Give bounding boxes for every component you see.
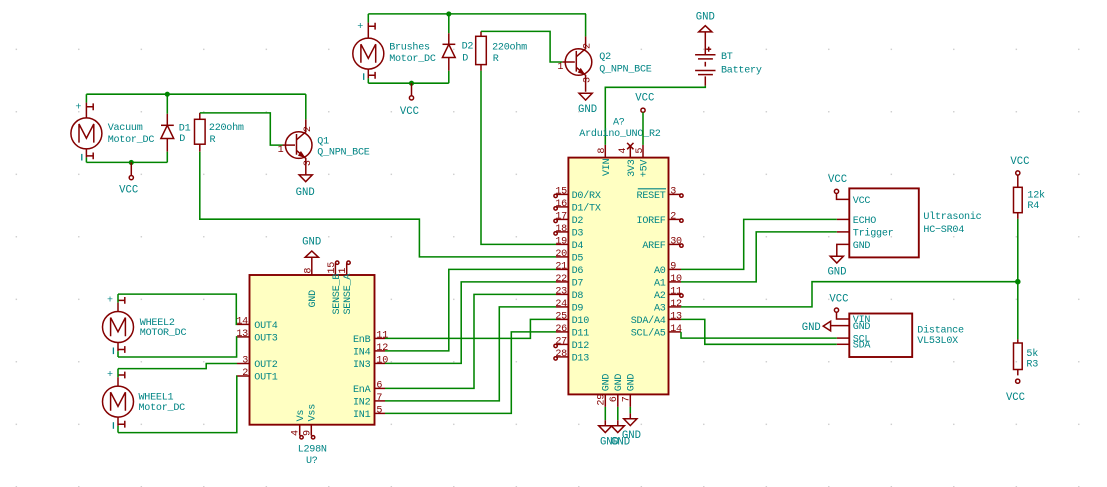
wire IN1 to D11	[385, 332, 556, 414]
svg-text:10: 10	[376, 355, 388, 366]
resistor R4 12k	[1017, 175, 1019, 187]
wire GND pin6	[617, 407, 619, 420]
svg-text:D: D	[462, 54, 468, 65]
svg-text:GND: GND	[627, 374, 638, 392]
U? unconnected hooks Vs Vss	[300, 436, 303, 439]
motor WHEEL1 Motor_DC	[103, 386, 134, 417]
svg-text:SENSE_B: SENSE_B	[332, 274, 343, 315]
VL53L0X pin stubs	[837, 337, 850, 339]
svg-text:GND: GND	[308, 290, 319, 308]
svg-text:Arduino_UNO_R2: Arduino_UNO_R2	[579, 128, 660, 140]
wire A1 to Trigger	[681, 232, 837, 282]
svg-text:Q_NPN_BCE: Q_NPN_BCE	[599, 65, 651, 76]
ground A? pin29	[604, 420, 606, 426]
svg-text:IN4: IN4	[353, 347, 371, 358]
transistor Q1 Q_NPN_BCE	[285, 132, 312, 159]
VL53L0X GND pin	[831, 325, 850, 327]
motor WHEEL2 MOTOR_DC	[103, 312, 134, 343]
svg-text:Q2: Q2	[599, 52, 611, 63]
svg-text:13: 13	[236, 329, 248, 340]
svg-text:A2: A2	[654, 291, 666, 302]
svg-text:WHEEL1: WHEEL1	[139, 392, 174, 403]
svg-text:Motor_DC: Motor_DC	[389, 54, 436, 65]
svg-text:GND: GND	[614, 374, 625, 392]
ground U? pin8	[305, 251, 318, 257]
svg-text:5k: 5k	[1026, 348, 1038, 360]
IC U? L298N body	[250, 275, 375, 425]
transistor Q2 base pin	[562, 61, 575, 63]
wire net VCC-vacuum top	[86, 93, 305, 95]
svg-text:220ohm: 220ohm	[209, 122, 244, 134]
svg-text:D3: D3	[572, 228, 584, 239]
IC Distance VL53L0X body	[849, 314, 912, 358]
svg-text:VIN: VIN	[602, 158, 613, 176]
wire D2 bottom	[448, 71, 450, 83]
svg-text:2: 2	[670, 211, 676, 222]
wire R-brushes to D4	[481, 71, 556, 245]
svg-text:24: 24	[555, 299, 567, 310]
svg-text:D12: D12	[572, 341, 590, 352]
A? top pin stubs VIN 3V3 +5V	[604, 145, 606, 158]
svg-text:8: 8	[303, 268, 314, 274]
motor WHEEL2 top pin	[117, 294, 119, 303]
svg-text:EnB: EnB	[353, 335, 371, 346]
svg-text:A1: A1	[654, 278, 666, 289]
wire VCC to +5V	[642, 112, 644, 144]
svg-text:GND: GND	[622, 430, 641, 442]
svg-text:VCC: VCC	[853, 196, 871, 207]
power VCC brushes stub	[411, 83, 413, 96]
svg-text:Brushes: Brushes	[389, 41, 430, 53]
svg-text:SDA: SDA	[853, 341, 872, 352]
U? top pin stubs GND SENSE_B SENSE_A	[311, 257, 313, 275]
svg-text:IN1: IN1	[353, 410, 371, 421]
svg-text:23: 23	[555, 286, 567, 297]
svg-text:Q1: Q1	[317, 136, 329, 147]
svg-text:SCL/A5: SCL/A5	[631, 327, 666, 339]
wire A3 to divider junction	[681, 282, 1018, 307]
svg-text:VL53L0X: VL53L0X	[917, 336, 958, 347]
wire junction to R3	[1017, 282, 1019, 340]
svg-text:BT: BT	[721, 52, 733, 63]
A? bottom pin stubs GND x3	[604, 394, 606, 407]
svg-text:11: 11	[376, 330, 388, 341]
svg-text:1: 1	[338, 268, 349, 274]
motor WHEEL1 top pin	[117, 369, 119, 378]
svg-text:3: 3	[670, 186, 676, 197]
HC-SR04 GND pin	[837, 244, 850, 256]
svg-text:D13: D13	[572, 353, 590, 364]
svg-text:OUT2: OUT2	[254, 360, 277, 371]
svg-text:5: 5	[635, 148, 646, 154]
svg-text:D1/TX: D1/TX	[572, 202, 601, 214]
svg-text:OUT3: OUT3	[254, 333, 277, 344]
svg-text:29: 29	[596, 394, 607, 406]
U? right pin stubs	[375, 337, 386, 339]
wire EnA to D8	[385, 294, 556, 388]
svg-text:2: 2	[303, 126, 314, 132]
wire D1 bottom	[166, 152, 168, 163]
A? left pin stubs D0-D13	[556, 193, 568, 195]
ground arrow VL53L0X	[823, 321, 830, 331]
svg-text:+: +	[75, 102, 81, 113]
motor M brushes top pin	[367, 14, 369, 23]
svg-text:MOTOR_DC: MOTOR_DC	[140, 328, 187, 339]
svg-text:Vss: Vss	[308, 404, 319, 422]
wire WHEEL2- to OUT3	[118, 337, 237, 357]
svg-text:SDA/A4: SDA/A4	[631, 315, 666, 327]
svg-text:GND: GND	[853, 241, 871, 252]
svg-text:2: 2	[583, 43, 594, 49]
svg-text:VCC: VCC	[1010, 156, 1029, 168]
transistor Q2 Q_NPN_BCE	[565, 49, 592, 76]
svg-text:8: 8	[597, 148, 608, 154]
svg-text:D8: D8	[572, 291, 584, 302]
svg-text:Motor_DC: Motor_DC	[108, 135, 155, 146]
svg-text:VCC: VCC	[635, 93, 654, 105]
svg-text:6: 6	[609, 396, 620, 402]
ground A? pin6	[617, 420, 619, 426]
svg-text:D2: D2	[462, 41, 474, 52]
svg-text:AREF: AREF	[642, 241, 665, 252]
svg-text:D0/RX: D0/RX	[572, 190, 601, 202]
ground Q1	[299, 175, 312, 182]
svg-text:R: R	[210, 135, 216, 146]
svg-text:VCC: VCC	[1006, 392, 1025, 404]
HC-SR04 VCC pin	[837, 194, 850, 200]
wire EnB to D10	[385, 319, 556, 338]
junction diode D2 top	[447, 12, 451, 16]
wire battery to VIN	[605, 86, 705, 145]
junction diode D1 top	[166, 92, 170, 96]
U? unconnected hooks SENSE	[336, 261, 339, 264]
svg-text:IOREF: IOREF	[637, 216, 666, 227]
A? unconnected pin hooks left	[554, 194, 557, 197]
U? bottom pin stubs Vs Vss	[299, 425, 301, 436]
battery BT	[704, 32, 706, 54]
A? right pin stubs	[669, 193, 682, 195]
svg-text:7: 7	[621, 396, 632, 402]
svg-text:D1: D1	[179, 123, 191, 134]
svg-text:Motor_DC: Motor_DC	[139, 403, 186, 414]
svg-text:VCC: VCC	[828, 174, 847, 186]
svg-text:D: D	[179, 134, 185, 145]
A? unconnected pin hooks right	[680, 194, 683, 197]
U? left pin stubs OUT1-OUT4	[237, 323, 250, 325]
svg-text:Ultrasonic: Ultrasonic	[923, 211, 981, 223]
wire Q2 collector	[585, 14, 587, 37]
svg-text:HC−SR04: HC−SR04	[923, 225, 964, 236]
svg-text:9: 9	[670, 261, 676, 272]
no-connect cross 3V3	[627, 143, 633, 149]
svg-text:22: 22	[555, 274, 567, 285]
wire GND pin29	[604, 407, 606, 420]
svg-text:220ohm: 220ohm	[492, 41, 527, 53]
svg-text:3V3: 3V3	[627, 159, 638, 177]
svg-text:GND: GND	[578, 104, 597, 116]
svg-text:GND: GND	[802, 322, 821, 334]
wire SDA/A4 to SDA	[681, 319, 837, 344]
junction brushes VCC	[410, 81, 414, 85]
wire Q1 collector	[305, 94, 307, 119]
svg-text:26: 26	[555, 324, 567, 335]
svg-text:Battery: Battery	[721, 66, 762, 77]
wire D1 top	[166, 94, 168, 114]
svg-text:1: 1	[278, 145, 284, 156]
wire R4 to junction	[1017, 219, 1019, 282]
wire R-vacuum to Q1 base	[200, 113, 283, 145]
op-amp U? none; IC A? Arduino_UNO_R2 body	[568, 158, 668, 395]
svg-text:+: +	[107, 296, 113, 307]
svg-text:Vacuum: Vacuum	[108, 123, 143, 134]
motor M brushes bottom pin	[367, 69, 369, 78]
svg-text:3: 3	[583, 77, 594, 83]
svg-text:IN3: IN3	[353, 360, 371, 371]
svg-text:VCC: VCC	[400, 106, 419, 118]
svg-text:12: 12	[670, 299, 682, 310]
svg-text:D9: D9	[572, 303, 584, 314]
svg-text:IN2: IN2	[353, 397, 371, 408]
svg-text:GND: GND	[853, 322, 871, 333]
svg-text:D4: D4	[572, 241, 584, 252]
wire WHEEL2+ to OUT4	[118, 294, 237, 324]
svg-text:VCC: VCC	[119, 184, 138, 196]
svg-text:20: 20	[555, 249, 567, 260]
svg-text:D10: D10	[572, 316, 590, 327]
wire D2 top	[448, 14, 450, 33]
svg-text:12k: 12k	[1027, 189, 1045, 201]
svg-text:3: 3	[242, 356, 248, 367]
svg-text:D5: D5	[572, 253, 584, 264]
diode D2	[448, 33, 450, 44]
VL53L0X VIN pin	[837, 312, 850, 319]
svg-text:3: 3	[303, 160, 314, 166]
svg-text:Trigger: Trigger	[853, 227, 894, 239]
A? RESET overline	[638, 188, 666, 190]
svg-text:VCC: VCC	[829, 294, 848, 306]
wire R-brushes to Q2 base	[481, 31, 562, 62]
svg-text:+: +	[357, 22, 363, 33]
wire WHEEL1+ to OUT2	[118, 364, 237, 369]
wire R-vacuum to D5	[200, 152, 556, 257]
power VCC vacuum stub	[130, 162, 132, 175]
junction divider node	[1016, 280, 1020, 284]
resistor R3 5k	[1017, 339, 1019, 343]
svg-text:6: 6	[376, 380, 382, 391]
svg-text:+: +	[107, 370, 113, 381]
HC-SR04 pin stubs	[837, 218, 850, 220]
svg-text:9: 9	[302, 430, 313, 436]
wire IN2 to D9	[385, 307, 556, 401]
svg-text:2: 2	[242, 368, 248, 379]
svg-text:D11: D11	[572, 328, 590, 339]
svg-text:R3: R3	[1026, 360, 1038, 371]
wire IN4 to D6	[385, 269, 556, 351]
svg-text:A3: A3	[654, 303, 666, 314]
ground HC-SR04	[830, 256, 843, 263]
ground A? pin7	[629, 413, 631, 418]
svg-text:L298N: L298N	[298, 445, 327, 456]
svg-text:21: 21	[555, 261, 567, 272]
motor WHEEL1 bottom pin	[117, 417, 119, 426]
svg-text:12: 12	[376, 343, 388, 354]
wire WHEEL1- to OUT1	[118, 376, 237, 433]
svg-text:A0: A0	[654, 266, 666, 277]
svg-text:D2: D2	[572, 216, 584, 227]
svg-text:D6: D6	[572, 266, 584, 277]
resistor R 220ohm (brushes)	[480, 31, 482, 36]
svg-text:A?: A?	[613, 118, 625, 129]
junction vacuum VCC	[130, 161, 134, 165]
svg-text:GND: GND	[602, 374, 613, 392]
svg-text:U?: U?	[306, 456, 318, 467]
svg-text:+5V: +5V	[640, 160, 651, 178]
svg-text:7: 7	[376, 393, 382, 404]
transistor Q1 base pin	[283, 144, 296, 146]
motor WHEEL2 bottom pin	[117, 343, 119, 352]
svg-text:1: 1	[557, 62, 563, 73]
svg-text:Distance: Distance	[917, 325, 964, 337]
wire brushes bottom	[368, 82, 449, 84]
wire GND pin7	[629, 407, 631, 414]
svg-text:Vs: Vs	[296, 410, 307, 422]
svg-text:GND: GND	[302, 237, 321, 249]
svg-text:R4: R4	[1027, 201, 1039, 212]
wire A0 to ECHO	[681, 219, 837, 269]
svg-text:D7: D7	[572, 278, 584, 289]
svg-text:RESET: RESET	[637, 191, 666, 202]
svg-text:SENSE_A: SENSE_A	[343, 273, 354, 315]
motor M vacuum bottom pin	[85, 149, 87, 158]
ground Q2	[579, 93, 592, 100]
svg-text:GND: GND	[827, 267, 846, 279]
diode D1	[166, 114, 168, 126]
svg-text:19: 19	[555, 236, 567, 247]
svg-text:10: 10	[670, 274, 682, 285]
wire vacuum bottom	[86, 161, 167, 163]
svg-text:ECHO: ECHO	[853, 216, 876, 227]
svg-text:GND: GND	[696, 12, 715, 24]
svg-text:14: 14	[236, 316, 248, 327]
svg-text:OUT1: OUT1	[254, 372, 277, 383]
svg-text:OUT4: OUT4	[254, 321, 277, 332]
motor Vacuum Motor_DC	[71, 118, 102, 149]
svg-text:GND: GND	[296, 187, 315, 199]
wire IN3 to D7	[385, 282, 556, 364]
wire SCL/A5 to SCL	[681, 332, 837, 338]
motor Brushes Motor_DC	[353, 38, 384, 69]
svg-text:4: 4	[291, 430, 302, 436]
svg-text:5: 5	[376, 405, 382, 416]
svg-text:Q_NPN_BCE: Q_NPN_BCE	[317, 147, 369, 158]
svg-text:EnA: EnA	[353, 385, 372, 396]
resistor R 220ohm (vacuum)	[199, 113, 201, 119]
svg-text:R: R	[493, 54, 499, 65]
svg-text:25: 25	[555, 311, 567, 322]
wire net brushes top	[368, 13, 586, 15]
IC Ultrasonic HC-SR04 body	[849, 188, 919, 257]
svg-text:13: 13	[670, 311, 682, 322]
motor M vacuum top pin	[85, 94, 87, 102]
